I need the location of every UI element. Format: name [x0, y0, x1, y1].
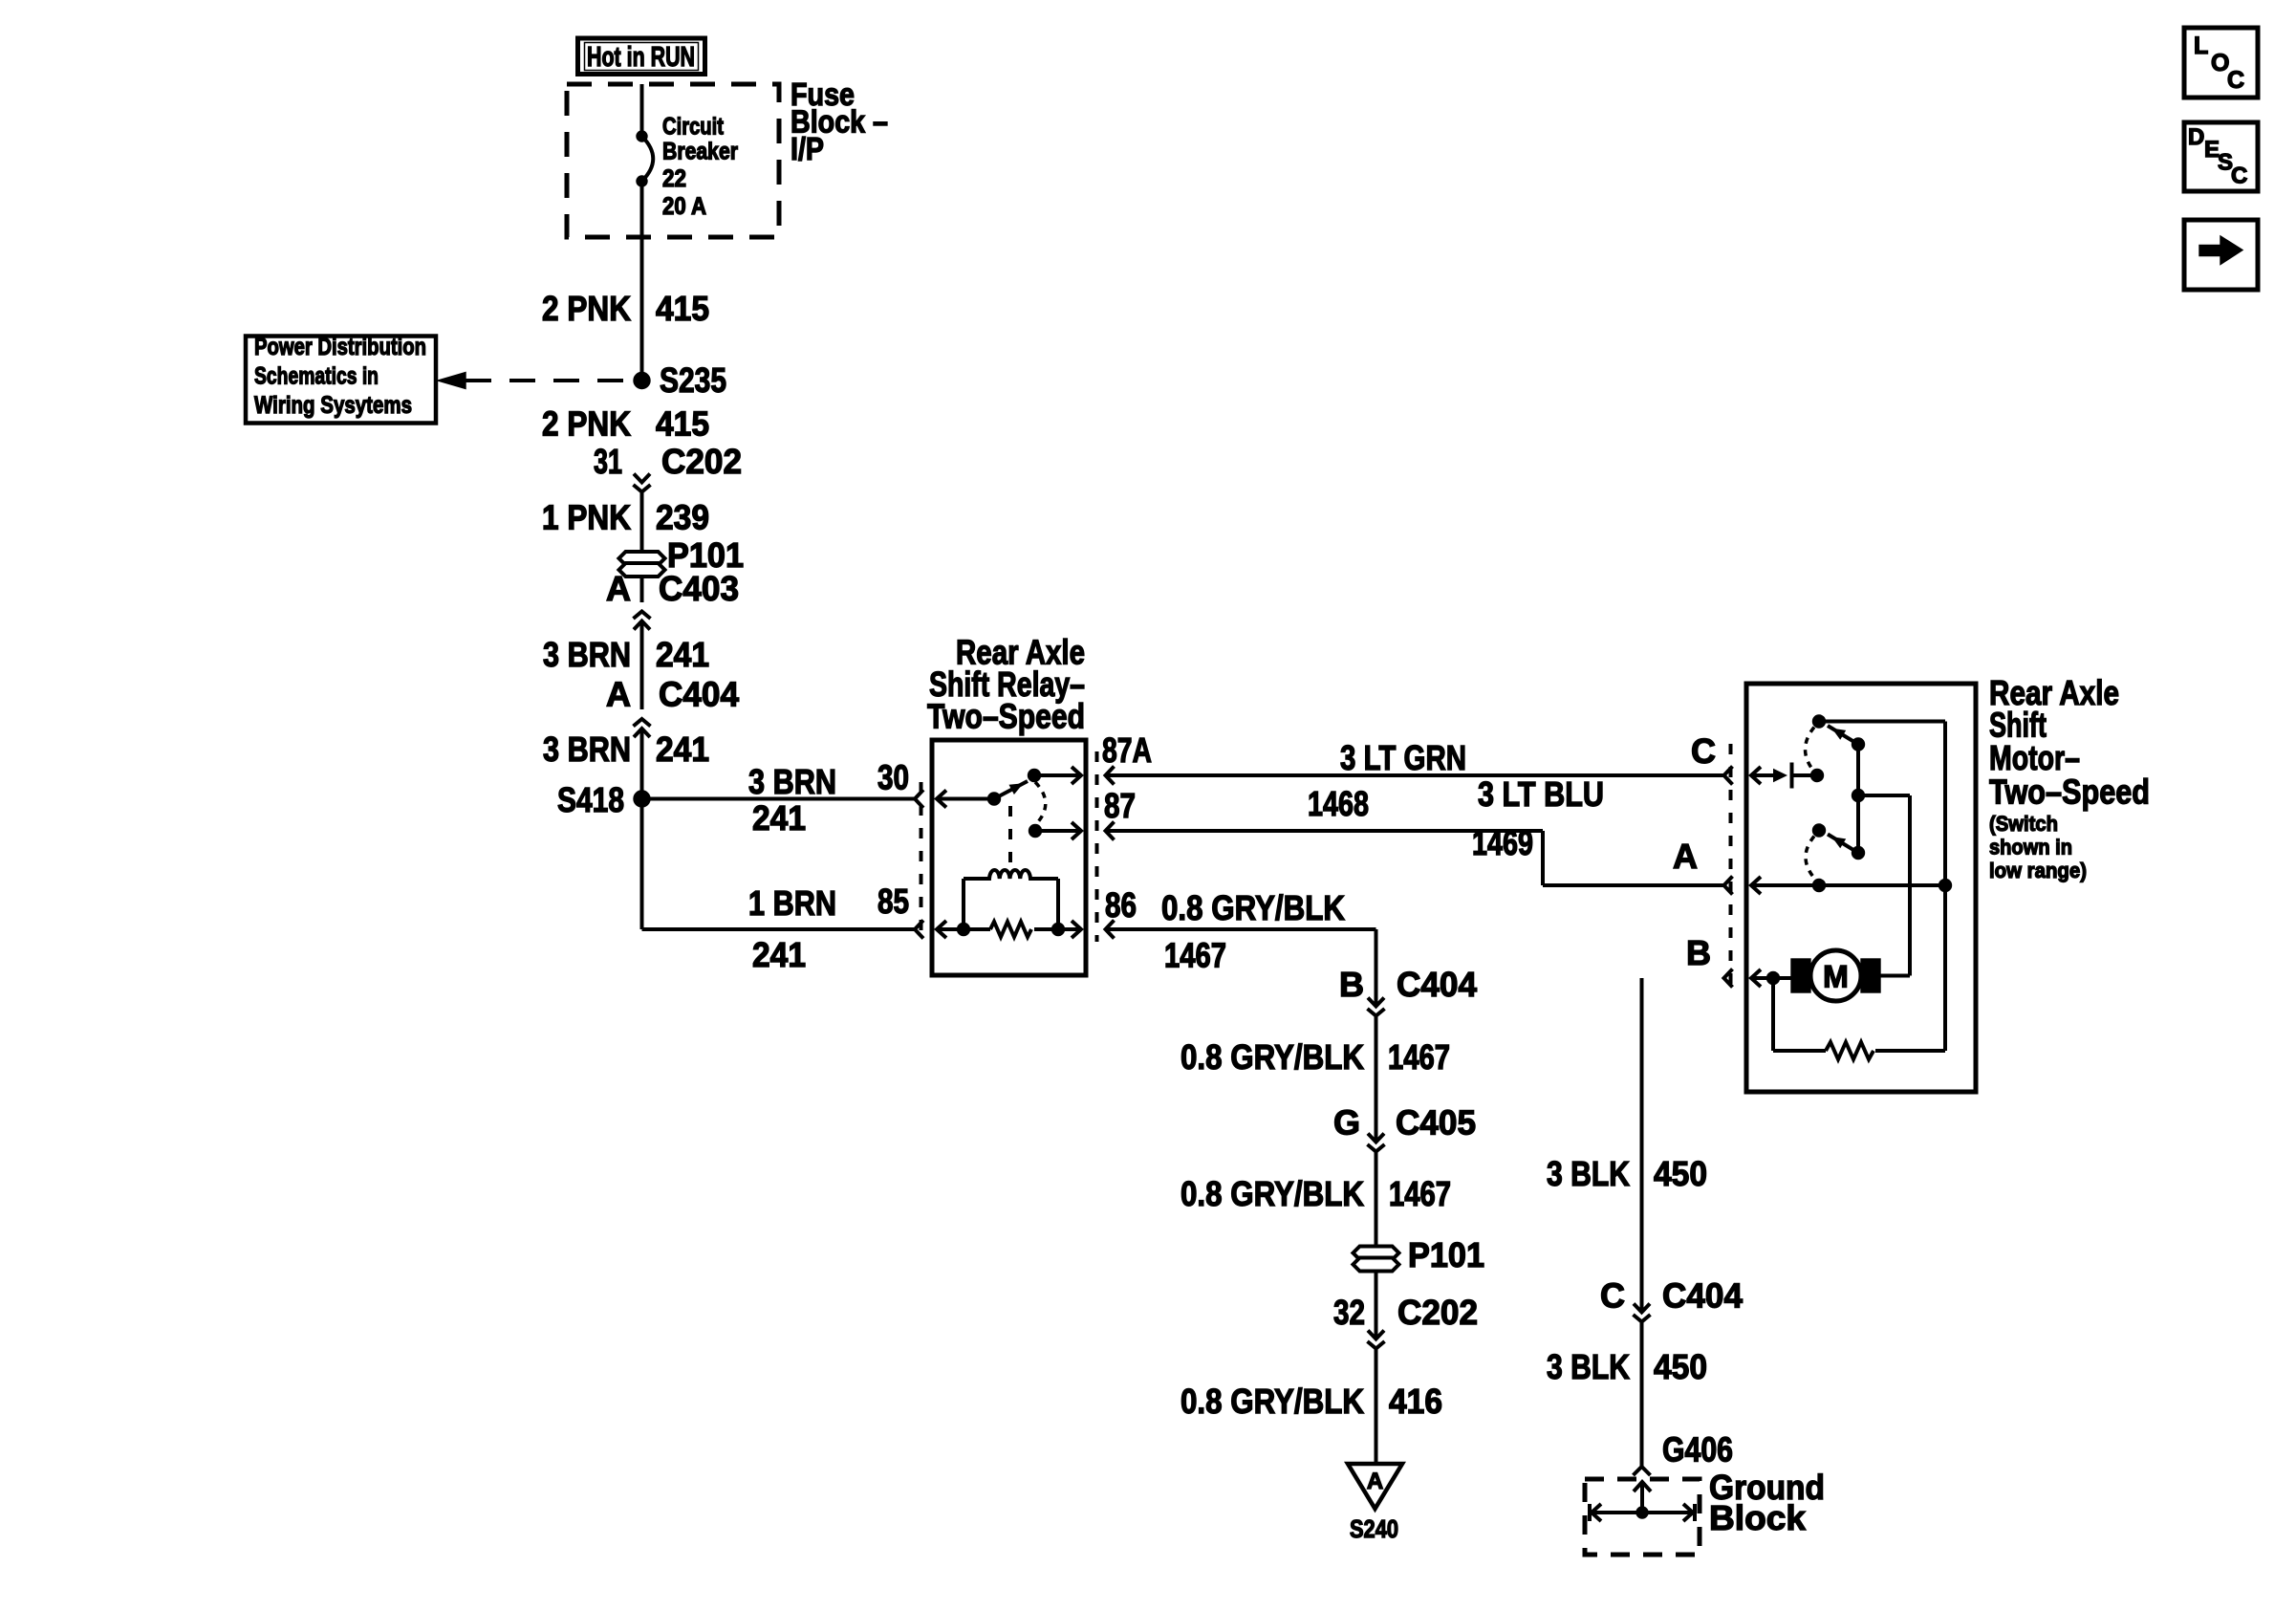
motor mid junction [1852, 790, 1865, 802]
connector C404 pin B inline [1368, 998, 1384, 1007]
svg-text:1 PNK: 1 PNK [542, 498, 631, 537]
DESC icon box [2184, 122, 2258, 191]
wire P101 to C202 [1375, 1272, 1378, 1339]
circuit breaker 22 20A [637, 131, 647, 142]
svg-text:L: L [2194, 33, 2208, 59]
svg-text:A: A [606, 675, 631, 714]
Hot in RUN label box [578, 38, 705, 75]
svg-text:C404: C404 [1662, 1276, 1743, 1316]
wire C202 to S240 [1375, 1348, 1378, 1464]
svg-text:30: 30 [877, 758, 909, 797]
wire 87A to motor pin C (3 LT GRN 1468) [1106, 767, 1115, 785]
motor pin B connector [1724, 969, 1733, 988]
wire C404 to S418 to bottom corner [640, 729, 644, 929]
svg-text:1 BRN: 1 BRN [748, 883, 836, 923]
svg-text:87: 87 [1104, 786, 1136, 825]
relay switch blade to 87A [994, 781, 1028, 799]
ground block dashed outline [1585, 1479, 1700, 1555]
svg-text:A: A [606, 569, 631, 608]
relay 86 wire to box edge [1034, 927, 1081, 931]
splice symbol S240 triangle [1348, 1464, 1402, 1509]
wire S418 to relay pin 30 [642, 797, 916, 801]
svg-text:241: 241 [752, 935, 806, 974]
svg-text:S240: S240 [1350, 1514, 1398, 1543]
relay pin 85 connector [915, 921, 923, 939]
relay contact 87A node [1029, 770, 1041, 782]
svg-text:C404: C404 [659, 675, 739, 714]
ground block internals [1590, 1511, 1695, 1514]
arrow icon box [2184, 220, 2258, 290]
motor wire top contact to right rail [1819, 720, 1945, 724]
wire motor pin B to C404 pin C (3 BLK 450) [1640, 978, 1644, 1313]
svg-text:450: 450 [1654, 1347, 1707, 1386]
connector C404 inline [634, 729, 650, 737]
svg-text:0.8 GRY/BLK: 0.8 GRY/BLK [1180, 1382, 1364, 1421]
svg-text:3 LT GRN: 3 LT GRN [1340, 738, 1466, 777]
motor lower switch blade [1852, 847, 1865, 860]
svg-text:C: C [2227, 67, 2244, 94]
svg-text:P101: P101 [1408, 1235, 1484, 1274]
motor pin A contact node [1813, 880, 1826, 892]
svg-text:1467: 1467 [1164, 936, 1226, 975]
svg-text:0.8 GRY/BLK: 0.8 GRY/BLK [1180, 1174, 1364, 1213]
svg-text:416: 416 [1389, 1382, 1442, 1421]
svg-text:low range): low range) [1989, 859, 2087, 882]
motor lower throw contact node [1813, 824, 1826, 837]
motor upper throw contact node [1813, 715, 1826, 728]
svg-text:3 BRN: 3 BRN [543, 729, 631, 769]
svg-text:M: M [1823, 960, 1849, 994]
svg-text:0.8 GRY/BLK: 0.8 GRY/BLK [1180, 1037, 1364, 1077]
svg-text:3 BLK: 3 BLK [1547, 1154, 1630, 1193]
svg-text:3 LT BLU: 3 LT BLU [1478, 774, 1604, 814]
svg-text:Two–Speed: Two–Speed [1989, 773, 2150, 812]
connector C202 inline [634, 474, 650, 483]
wire C405 to P101 [1375, 1151, 1378, 1247]
svg-text:0.8 GRY/BLK: 0.8 GRY/BLK [1161, 888, 1345, 927]
svg-text:S235: S235 [660, 360, 726, 400]
motor pin B junction [1767, 972, 1780, 985]
motor contact node at pin C [1811, 770, 1824, 782]
motor pin C limit contact [1773, 769, 1787, 782]
svg-text:86: 86 [1105, 885, 1137, 925]
svg-text:87A: 87A [1102, 730, 1152, 770]
Power Distribution reference box [246, 337, 436, 424]
svg-text:C404: C404 [1397, 965, 1477, 1004]
motor resistor branch [1771, 978, 1775, 1051]
relay coil-left junction [958, 924, 970, 936]
relay internal resistor [990, 922, 1031, 937]
motor dashed arc upper switch [1806, 728, 1815, 773]
relay dashed throw arc 87A-87 [1035, 782, 1046, 824]
motor armature M [1791, 959, 1810, 992]
relay 87A wire to box edge [1034, 773, 1081, 777]
wire C202 to P101 [640, 491, 644, 552]
svg-text:2 PNK: 2 PNK [542, 404, 631, 444]
svg-text:1468: 1468 [1308, 784, 1369, 823]
svg-text:239: 239 [656, 498, 709, 537]
wire S418 to relay pin 85 [642, 927, 916, 931]
wire P101 to C403 [640, 577, 644, 602]
svg-text:C405: C405 [1396, 1103, 1476, 1143]
motor right rail junction [1939, 880, 1952, 892]
relay contact 87 node [1029, 825, 1042, 838]
wire from Hot in RUN into fuse block [640, 84, 644, 135]
wire circuit breaker to S235 [640, 182, 644, 381]
svg-text:85: 85 [877, 882, 909, 921]
relay box [932, 740, 1086, 975]
svg-text:C403: C403 [659, 569, 739, 608]
svg-text:Schematics in: Schematics in [254, 363, 379, 390]
svg-text:3 BRN: 3 BRN [543, 635, 631, 674]
motor switch common vertical [1856, 745, 1860, 854]
svg-text:31: 31 [594, 442, 622, 481]
svg-text:C202: C202 [661, 442, 742, 481]
svg-text:Hot in RUN: Hot in RUN [587, 42, 695, 73]
dashed reference arrow to Power Distribution [438, 373, 466, 389]
grommet P101 (upper) [619, 552, 665, 565]
wire C404 to C405 [1375, 1015, 1378, 1143]
svg-text:Circuit: Circuit [662, 114, 725, 141]
relay coil dashed actuator line [1008, 806, 1012, 864]
relay 87 wire to box edge [1035, 829, 1081, 833]
svg-text:Block: Block [1709, 1498, 1807, 1537]
svg-text:C: C [1600, 1276, 1625, 1316]
wire 86 to C404 pin B (0.8 GRY/BLK 1467) [1106, 921, 1115, 939]
svg-text:B: B [1686, 933, 1711, 972]
motor box [1746, 684, 1976, 1092]
ground lead end chevron [1634, 1467, 1651, 1475]
connector C404 pin C inline [1634, 1304, 1650, 1313]
fuse block dashed outline [567, 84, 779, 237]
grommet P101 (lower) [1354, 1247, 1399, 1260]
splice S418 [634, 791, 650, 807]
relay coil-right junction [1052, 924, 1065, 936]
motor wire mid-junction to armature right [1858, 794, 1910, 797]
svg-text:3 BRN: 3 BRN [748, 762, 836, 801]
svg-text:shown in: shown in [1989, 836, 2072, 860]
svg-text:20 A: 20 A [662, 193, 706, 220]
svg-text:C: C [1691, 731, 1716, 771]
svg-text:B: B [1339, 965, 1364, 1004]
connector C405 inline [1368, 1134, 1384, 1143]
relay switch common node [988, 793, 1001, 805]
connector C403 inline [634, 621, 650, 630]
svg-text:Power Distribution: Power Distribution [254, 334, 426, 360]
connector C202 pin 32 inline [1368, 1331, 1384, 1339]
svg-text:32: 32 [1333, 1293, 1365, 1332]
svg-text:241: 241 [752, 798, 806, 838]
relay coil [964, 870, 1058, 879]
motor pin C connector [1724, 767, 1733, 785]
relay right connector dashed line [1095, 751, 1099, 942]
svg-text:S418: S418 [557, 780, 624, 819]
svg-text:415: 415 [656, 289, 709, 328]
LOC icon box [2184, 28, 2258, 98]
svg-text:C202: C202 [1397, 1293, 1478, 1332]
svg-text:Wiring Sysytems: Wiring Sysytems [254, 392, 412, 419]
relay left connector dashed line [920, 782, 923, 939]
wire C403 to C404 [640, 621, 644, 710]
svg-text:G: G [1333, 1103, 1360, 1143]
splice S235 [634, 373, 650, 389]
svg-text:I/P: I/P [791, 131, 824, 166]
svg-text:241: 241 [656, 635, 709, 674]
svg-text:G406: G406 [1662, 1430, 1733, 1469]
svg-text:2 PNK: 2 PNK [542, 289, 631, 328]
svg-text:1467: 1467 [1388, 1037, 1450, 1077]
motor dashed arc lower switch [1806, 837, 1816, 881]
svg-text:D: D [2188, 124, 2204, 150]
svg-text:C: C [2231, 163, 2247, 189]
svg-text:1467: 1467 [1389, 1174, 1451, 1213]
motor connector dashed line [1729, 744, 1733, 996]
wire 87 to motor pin A (3 LT BLU 1469) [1106, 822, 1115, 840]
svg-text:Two–Speed: Two–Speed [927, 697, 1085, 736]
relay pin 30 connector [915, 790, 923, 808]
motor pin A connector [1724, 877, 1733, 895]
svg-text:A: A [1367, 1469, 1383, 1494]
wire C404 to ground block [1640, 1321, 1644, 1467]
svg-text:241: 241 [656, 729, 709, 769]
svg-text:415: 415 [656, 404, 709, 444]
svg-text:3 BLK: 3 BLK [1547, 1347, 1630, 1386]
svg-text:22: 22 [662, 165, 686, 192]
svg-text:A: A [1673, 837, 1698, 876]
svg-text:(Switch: (Switch [1989, 812, 2058, 836]
svg-text:1469: 1469 [1472, 823, 1533, 862]
svg-text:450: 450 [1654, 1154, 1707, 1193]
svg-text:Breaker: Breaker [662, 139, 738, 165]
motor upper switch blade [1828, 726, 1858, 745]
